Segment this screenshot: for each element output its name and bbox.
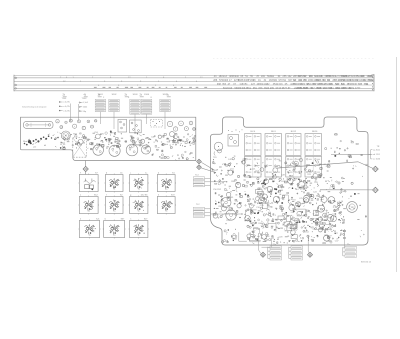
svg-text:716: 716	[298, 83, 303, 86]
bottom diamond D5	[261, 252, 266, 257]
bottom diamond D6	[308, 252, 313, 257]
medium rings left board	[139, 140, 142, 143]
svg-text:065: 065	[355, 75, 360, 78]
arrow from D2	[201, 168, 216, 173]
svg-text:184: 184	[261, 75, 266, 78]
IF module rect col1 row1	[245, 134, 262, 156]
left label group 1 long leader	[211, 181, 227, 183]
svg-text:019: 019	[228, 87, 233, 90]
svg-text:310: 310	[322, 79, 327, 82]
svg-text:D1: D1	[23, 141, 25, 143]
component value stack S103 leader line	[134, 114, 136, 134]
long wire to right diamond D3	[276, 162, 373, 168]
large can ring right	[347, 202, 358, 213]
svg-text:382: 382	[273, 79, 278, 82]
svg-text:1c: 1c	[145, 172, 147, 174]
svg-text:C6: C6	[137, 138, 139, 140]
dark specks left field	[239, 203, 240, 204]
svg-text:zb 1151: zb 1151	[373, 154, 381, 156]
svg-text:C51: C51	[100, 141, 103, 143]
svg-text:0,1uF: 0,1uF	[83, 102, 89, 104]
svg-text:1241: 1241	[343, 79, 349, 82]
svg-text:8941: 8941	[328, 87, 334, 90]
svg-text:h: h	[158, 194, 159, 196]
IF module rect col3 row2	[286, 156, 301, 177]
medium rings center field	[258, 198, 263, 203]
diamond D3 right	[373, 166, 379, 172]
svg-text:808: 808	[348, 83, 353, 86]
IF module rect col4 row1	[305, 134, 322, 156]
left label group 2 long leader	[211, 213, 243, 215]
svg-text:g: g	[130, 194, 131, 196]
component field below bumps	[331, 147, 332, 149]
svg-text:353: 353	[222, 83, 227, 86]
svg-text:5c: 5c	[138, 210, 140, 212]
svg-text:R75: R75	[100, 134, 103, 136]
component value stack S102 boxes	[109, 99, 119, 101]
electrolytic can C4	[141, 145, 150, 154]
component value stack S101 boxes	[95, 99, 105, 101]
component value stack S101 leader line	[99, 112, 101, 124]
left label group 1 boxes	[193, 177, 204, 180]
dark solder lug cluster	[24, 143, 26, 145]
left board mid component field	[60, 147, 62, 149]
outline rects center field	[258, 191, 264, 195]
svg-text:a 0,47k: a 0,47k	[63, 102, 70, 104]
svg-text:9453: 9453	[317, 83, 323, 86]
svg-text:8240: 8240	[341, 87, 347, 90]
svg-text:255: 255	[283, 75, 288, 78]
output transformer dashed box	[73, 138, 87, 158]
svg-text:5685: 5685	[303, 87, 309, 90]
left board lower right parts	[153, 153, 154, 154]
svg-text:527: 527	[335, 83, 340, 86]
switch detail rect	[151, 119, 163, 127]
svg-text:B3 166 12: B3 166 12	[361, 261, 372, 263]
svg-text:a12: a12	[33, 147, 36, 149]
svg-text:080: 080	[316, 79, 321, 82]
component value stack S104 boxes	[141, 99, 151, 101]
medium rings upper center field	[313, 174, 318, 179]
component field upper center	[272, 173, 273, 174]
component value stack S102 leader line	[113, 112, 115, 129]
svg-text:BU12: BU12	[291, 131, 297, 133]
svg-text:0443: 0443	[276, 87, 282, 90]
svg-text:846: 846	[259, 87, 264, 90]
svg-text:T102: T102	[82, 98, 88, 100]
svg-text:C26: C26	[131, 138, 134, 140]
component field center left	[282, 178, 285, 180]
right PCB outline	[211, 117, 369, 245]
svg-text:a 0,47k: a 0,47k	[63, 110, 70, 112]
svg-text:0586: 0586	[367, 79, 373, 82]
svg-text:1/12 S6: 1/12 S6	[140, 194, 148, 196]
svg-text:6b: 6b	[88, 210, 90, 212]
svg-text:R76: R76	[189, 143, 192, 145]
svg-text:S101: S101	[98, 94, 104, 96]
component value stack S103 boxes	[130, 99, 140, 101]
power transistor rings top left	[214, 142, 223, 151]
diamond D1 left	[197, 159, 202, 164]
IF module rect col2 row1	[265, 134, 282, 156]
dial strip mid dashes	[94, 86, 97, 88]
component field left bottom	[233, 238, 234, 239]
dark specks left board	[109, 139, 110, 140]
svg-text:S36: S36	[108, 139, 111, 141]
svg-text:S105: S105	[163, 94, 169, 96]
svg-text:3561: 3561	[246, 87, 252, 90]
bottom label stack A	[270, 246, 281, 249]
svg-text:966: 966	[349, 79, 354, 82]
svg-text:BU16: BU16	[312, 131, 318, 133]
svg-text:288: 288	[213, 79, 218, 82]
component field right sparse	[355, 165, 356, 168]
svg-text:R44: R44	[73, 134, 76, 136]
svg-text:b4: b4	[44, 145, 46, 147]
long wire right edge horizontal	[331, 154, 371, 156]
legend column B items	[79, 102, 80, 103]
faint dotted alignment line	[213, 57, 374, 59]
left label group 2 boxes	[193, 207, 204, 210]
coil can rings right group	[167, 121, 172, 126]
svg-text:0699: 0699	[367, 75, 373, 78]
dial scale strip outline	[14, 74, 374, 76]
svg-text:4823: 4823	[264, 87, 270, 90]
arrow from D1	[201, 162, 213, 169]
svg-text:100k: 100k	[83, 107, 87, 109]
marks under bump 1	[227, 129, 230, 132]
left board outline	[21, 117, 196, 160]
legend column B leader line	[78, 104, 80, 122]
svg-text:C73: C73	[110, 133, 113, 135]
component value stack S105 leader line	[164, 112, 166, 129]
component value stack S105 boxes	[160, 99, 170, 101]
svg-text:6c: 6c	[138, 234, 140, 236]
svg-text:a 0,47k: a 0,47k	[63, 106, 70, 108]
can ring bottom left A	[221, 198, 231, 208]
svg-text:940: 940	[235, 75, 240, 78]
diamond D4 right	[373, 187, 379, 193]
svg-text:4777: 4777	[355, 87, 361, 90]
can ring bottom left B	[226, 210, 236, 220]
legend column A leader line	[70, 104, 72, 122]
svg-text:3495: 3495	[296, 87, 302, 90]
svg-text:996: 996	[329, 83, 334, 86]
wire from board to coil box grid	[85, 161, 87, 167]
svg-text:3518: 3518	[316, 87, 322, 90]
legend column A items	[59, 101, 60, 102]
svg-text:S81: S81	[97, 146, 100, 148]
svg-text:345: 345	[309, 75, 314, 78]
svg-text:9c: 9c	[113, 188, 115, 190]
page edge line	[396, 57, 398, 272]
svg-text:T1c: T1c	[347, 244, 350, 246]
svg-text:690: 690	[332, 75, 337, 78]
dial lamp rail	[24, 121, 54, 128]
IF module rect col3 row1	[286, 134, 301, 156]
component field left band	[244, 213, 246, 215]
wire segments center field	[239, 232, 247, 241]
IF module rect col2 row2	[265, 156, 282, 177]
small component rings top row	[56, 120, 59, 123]
ground diamond above coil grid	[83, 166, 88, 171]
svg-text:549: 549	[341, 83, 346, 86]
svg-text:7b: 7b	[138, 188, 140, 190]
svg-text:444: 444	[309, 87, 314, 90]
dial strip right end cap	[373, 74, 375, 91]
IF module rect col4 row2	[305, 156, 322, 177]
svg-text:998: 998	[217, 83, 222, 86]
svg-text:T101: T101	[62, 98, 68, 100]
svg-text:R67: R67	[61, 143, 64, 145]
svg-text:016: 016	[279, 83, 284, 86]
long wire lower to diamond D4	[320, 189, 373, 191]
tuning drum pulley	[61, 131, 70, 140]
svg-text:S18: S18	[117, 141, 120, 143]
dial strip left end cap	[13, 75, 15, 92]
component field center right	[322, 228, 324, 230]
svg-text:Gedruckte Schaltung von der Le: Gedruckte Schaltung von der Leitungsseit…	[22, 105, 47, 108]
svg-text:464: 464	[309, 79, 314, 82]
svg-text:C56: C56	[94, 132, 97, 134]
trimmer block rectangles	[118, 119, 127, 132]
bottom label stack B	[291, 246, 302, 249]
svg-text:d: d	[158, 172, 159, 174]
electrolytic can C1	[93, 145, 104, 156]
medium rings left field	[221, 206, 226, 211]
dark specks center field	[292, 188, 293, 189]
svg-text:4271: 4271	[349, 87, 355, 90]
IF module rect col1 row2	[245, 156, 262, 177]
svg-text:k: k	[80, 218, 81, 220]
svg-text:n: n	[130, 218, 131, 220]
small relay rect top left	[228, 135, 239, 147]
svg-text:427: 427	[251, 83, 256, 86]
svg-text:7b: 7b	[165, 210, 167, 212]
svg-text:S16: S16	[167, 141, 170, 143]
svg-text:192: 192	[288, 75, 293, 78]
bottom wire stubs	[258, 233, 260, 250]
svg-text:TR1: TR1	[213, 157, 217, 159]
svg-text:299: 299	[270, 87, 275, 90]
extra fine specks center field	[263, 182, 264, 183]
svg-text:876: 876	[326, 75, 331, 78]
svg-text:S104: S104	[144, 94, 150, 96]
svg-text:688: 688	[343, 75, 348, 78]
svg-text:352: 352	[336, 87, 341, 90]
svg-text:951: 951	[253, 87, 258, 90]
svg-text:S103: S103	[133, 94, 139, 96]
right label group bracket	[370, 150, 372, 159]
svg-text:S102: S102	[112, 94, 118, 96]
svg-text:C48: C48	[151, 137, 154, 139]
electrolytic can C2	[109, 145, 120, 156]
component value stack S104 leader line	[146, 114, 148, 124]
electrolytic can C3	[126, 144, 138, 156]
svg-text:c: c	[130, 172, 131, 174]
diamond D2 left	[197, 165, 202, 170]
left board mid component field right	[193, 141, 195, 144]
svg-text:zc 1646: zc 1646	[373, 159, 381, 161]
bottom label stack C	[345, 246, 356, 249]
svg-text:272: 272	[361, 75, 366, 78]
svg-text:R64: R64	[134, 133, 137, 135]
right label group rows	[371, 149, 373, 151]
svg-text:za 4011: za 4011	[373, 150, 381, 152]
